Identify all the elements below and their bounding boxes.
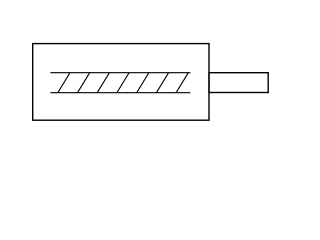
housing (outer rectangle) [33,44,209,121]
hatched band top line [50,72,190,74]
hatch slash 3 [97,73,109,93]
hatch slash 4 [117,73,129,93]
hatch slash 5 [137,73,149,93]
hatch slash 1 [58,73,70,93]
hatched band bottom line [50,92,190,94]
hatch slash 7 [176,73,188,93]
hatch slash 2 [78,73,90,93]
hatch slash 6 [156,73,168,93]
rod (small rectangle at right) [209,73,268,93]
